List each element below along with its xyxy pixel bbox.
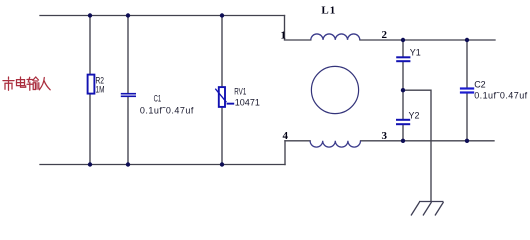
svg-text:4: 4 [283,130,289,142]
svg-text:Y1: Y1 [410,48,421,58]
svg-text:3: 3 [382,130,388,142]
svg-text:L1: L1 [321,5,336,17]
svg-text:RV1: RV1 [234,86,246,96]
svg-text:Y2: Y2 [409,111,420,121]
svg-text:1: 1 [281,30,287,42]
svg-text:0.1uf˜0.47uf: 0.1uf˜0.47uf [474,90,527,100]
svg-text:2: 2 [382,29,388,41]
svg-text:0.1uf˜0.47uf: 0.1uf˜0.47uf [140,106,194,116]
svg-text:1M: 1M [96,84,105,94]
svg-text:10471: 10471 [235,98,260,108]
svg-text:C2: C2 [474,79,486,89]
svg-text:C1: C1 [154,93,162,103]
